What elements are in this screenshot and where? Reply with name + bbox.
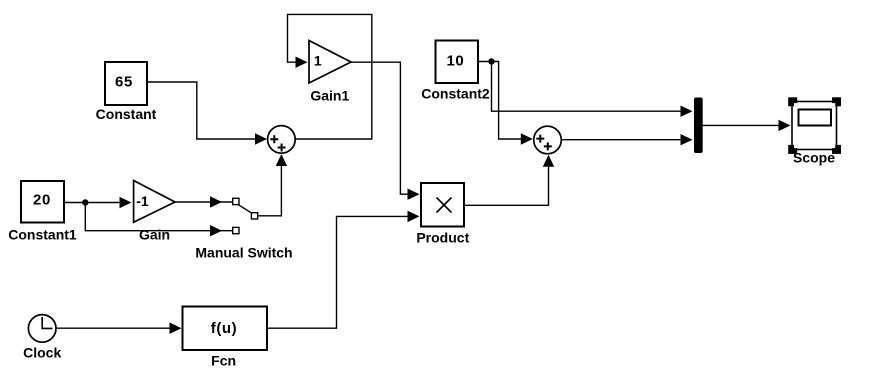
- svg-text:Constant2: Constant2: [421, 86, 490, 102]
- svg-text:Gain1: Gain1: [310, 88, 349, 104]
- svg-text:Constant1: Constant1: [8, 227, 77, 243]
- svg-text:10: 10: [446, 53, 464, 70]
- svg-text:f(u): f(u): [211, 320, 238, 337]
- svg-text:Fcn: Fcn: [211, 353, 236, 369]
- svg-text:-1: -1: [136, 193, 149, 209]
- svg-text:Clock: Clock: [23, 345, 61, 361]
- svg-text:Constant: Constant: [96, 106, 157, 122]
- svg-text:65: 65: [115, 74, 133, 91]
- svg-text:1: 1: [314, 53, 322, 69]
- svg-text:Manual Switch: Manual Switch: [195, 245, 292, 261]
- svg-text:Gain: Gain: [139, 227, 170, 243]
- svg-text:20: 20: [33, 192, 51, 209]
- svg-text:Scope: Scope: [793, 150, 835, 166]
- svg-text:Product: Product: [416, 230, 469, 246]
